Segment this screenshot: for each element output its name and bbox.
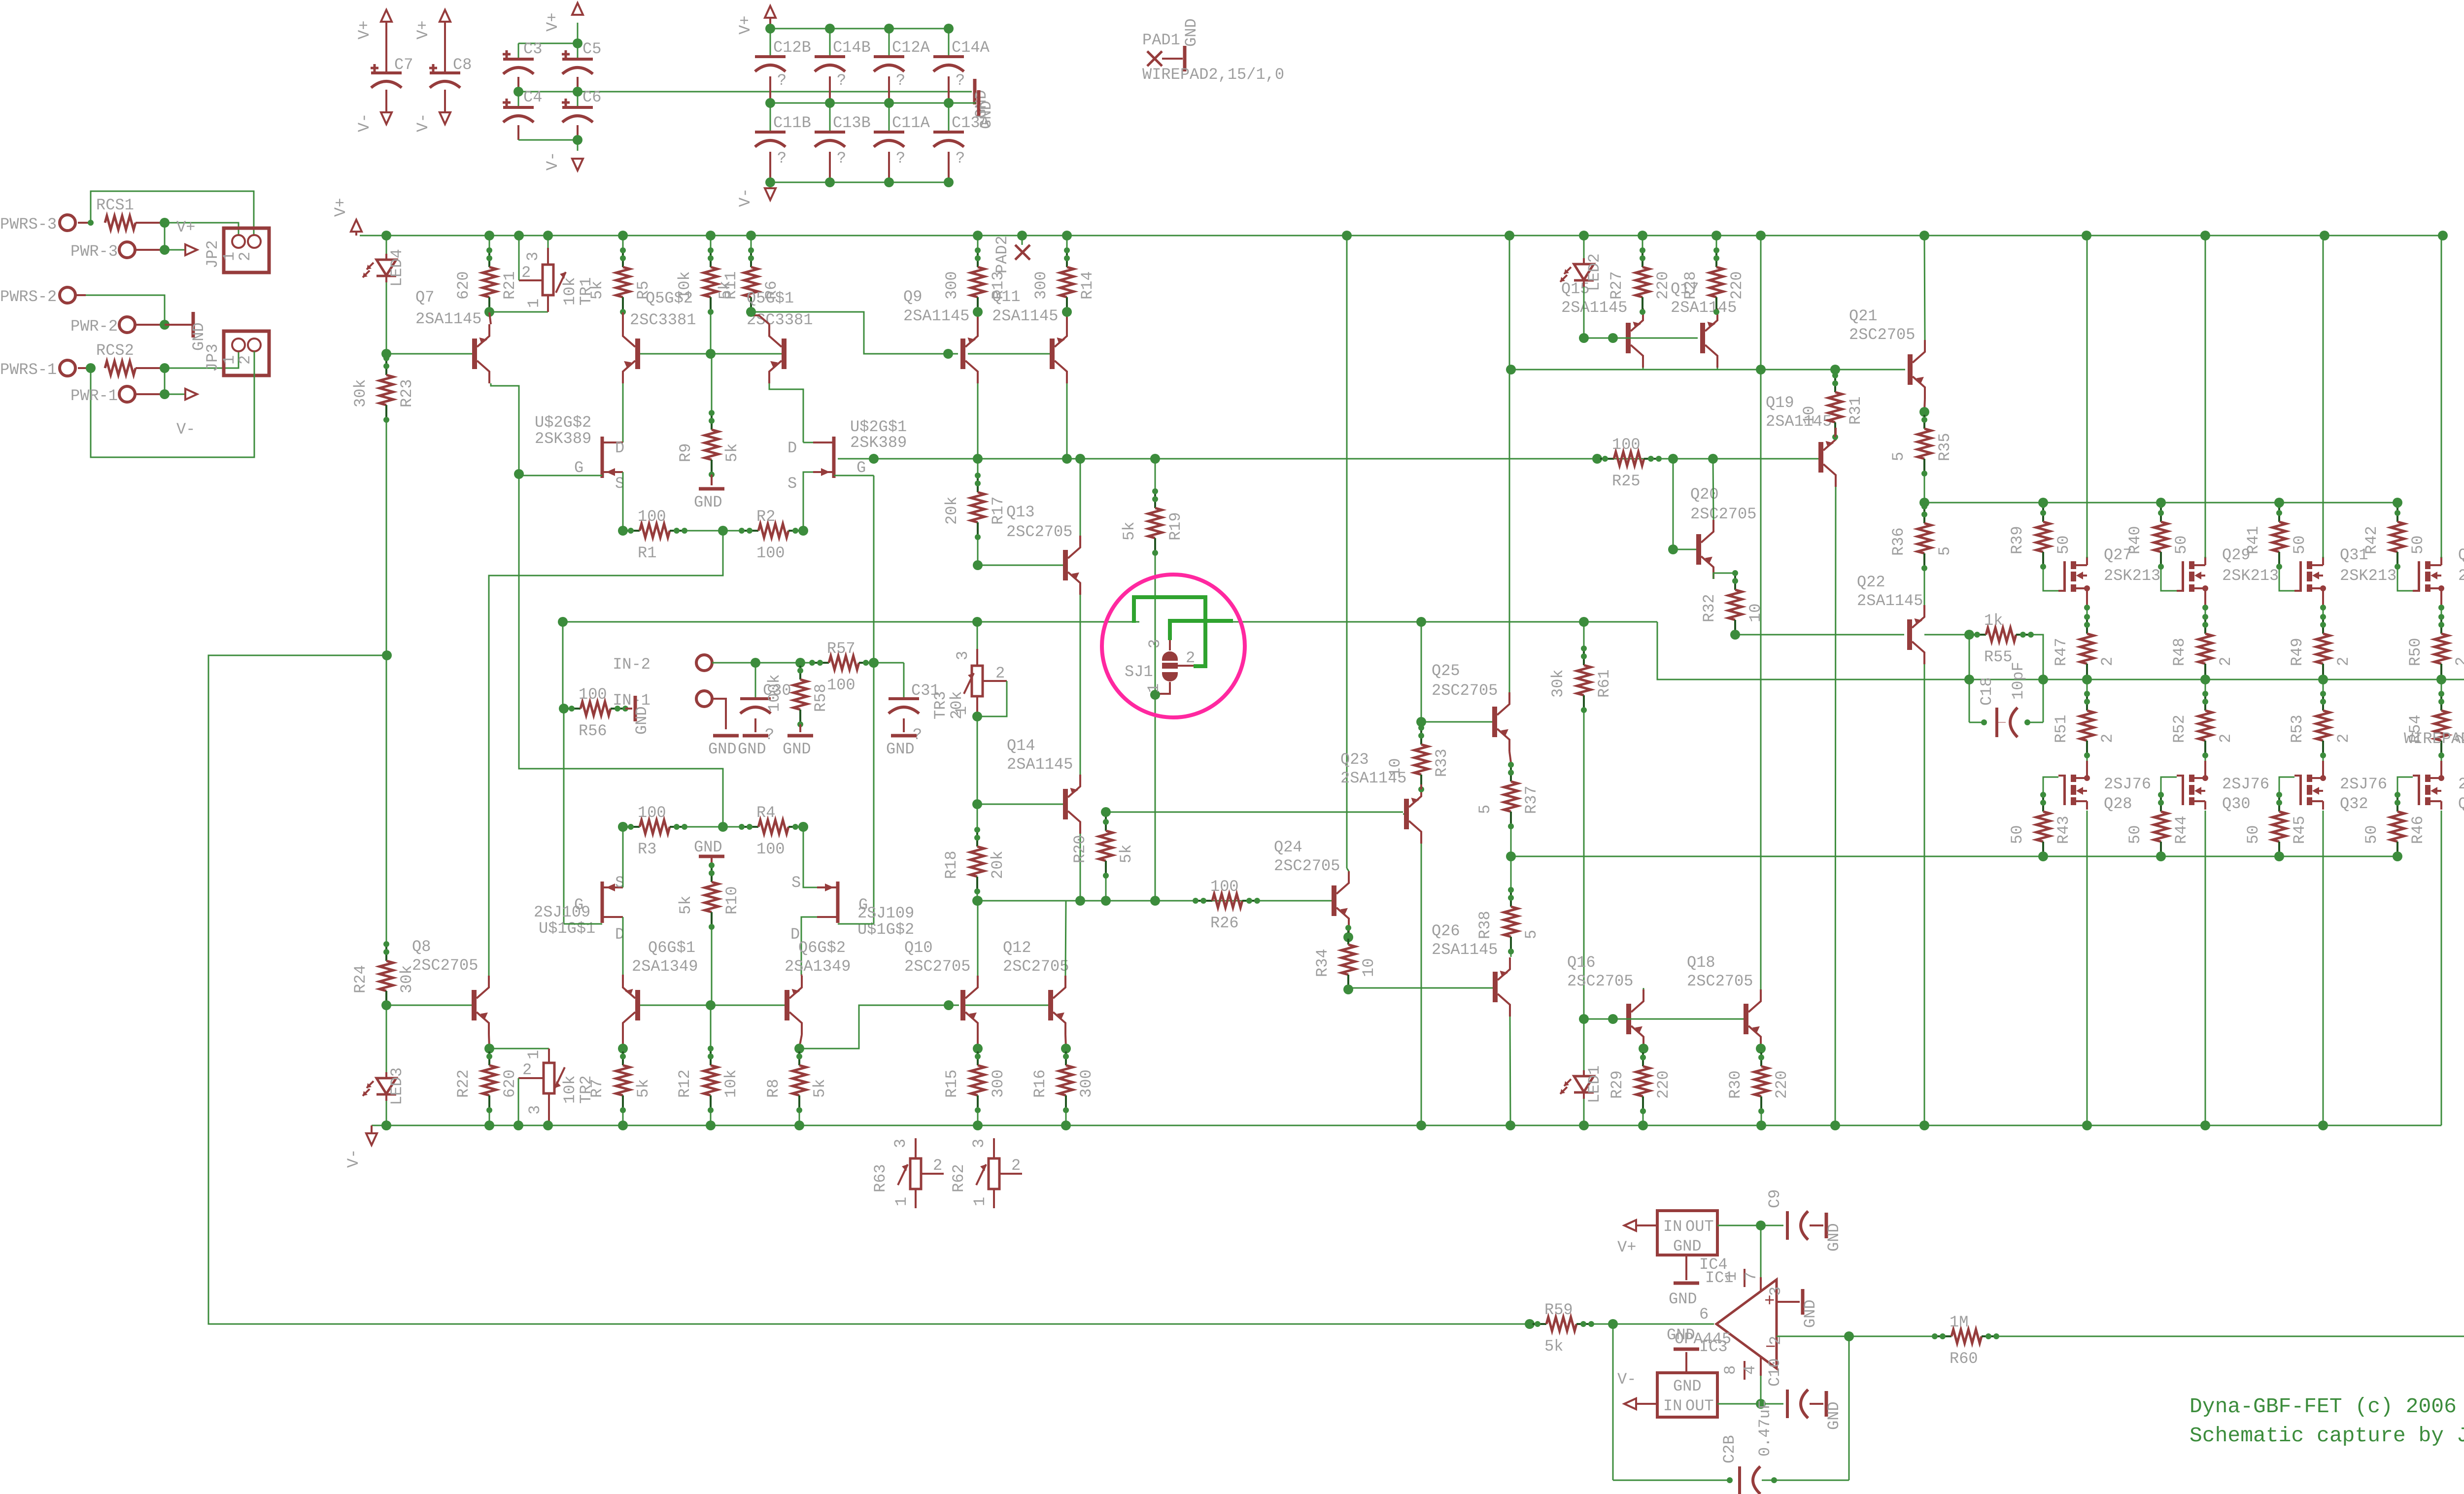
bottom wire C4 C6	[518, 139, 578, 141]
svg-text:R57: R57	[827, 640, 856, 658]
svg-text:2SJ76: 2SJ76	[2104, 775, 2151, 793]
svg-text:R55: R55	[1984, 648, 2013, 666]
wire Q28 drain to V- rail	[2087, 811, 2088, 1125]
resistor RCS2	[78, 367, 91, 369]
wire PWR-3 to V+ arrow	[135, 249, 165, 251]
capacitor C18	[1969, 722, 1984, 723]
svg-text:GND: GND	[1801, 1299, 1819, 1328]
transistor Q5G$1	[782, 339, 787, 369]
capacitor C11A	[889, 103, 890, 132]
transistor Q9	[960, 339, 965, 369]
resistor R7	[618, 1044, 628, 1053]
wire Q12 collector up	[1065, 901, 1066, 976]
wire Q26 base line	[1348, 987, 1493, 989]
V- symbol below cap bank	[770, 182, 771, 185]
op-amp IC1 OPA445 triangle	[1716, 1280, 1777, 1368]
wire Q34 gate to R46	[2397, 777, 2413, 795]
capacitor C12B	[770, 29, 771, 57]
ground under C31	[891, 734, 917, 738]
resistor R24	[385, 944, 387, 961]
svg-text:R2: R2	[756, 508, 775, 526]
svg-text:2: 2	[2453, 657, 2464, 666]
MOSFET Q28 2SJ76	[2058, 761, 2090, 810]
capacitor C30	[755, 663, 756, 699]
transistor Q12	[1048, 990, 1053, 1020]
svg-text:GND: GND	[694, 838, 722, 856]
svg-text:C9: C9	[1766, 1189, 1784, 1208]
wire V+ to Q24 collector column	[1346, 236, 1348, 868]
wire Q6G$1 collector to R7	[622, 1035, 624, 1048]
svg-text:R63: R63	[871, 1164, 890, 1192]
wire Q29 source to R48	[2205, 606, 2206, 617]
op-amp pin 3 to ground	[1777, 1301, 1800, 1303]
svg-text:LED3: LED3	[388, 1067, 406, 1105]
svg-text:R44: R44	[2172, 815, 2190, 844]
wire Q7 collector loop to R3 R4 junction	[491, 383, 723, 827]
wire R59 to op-amp	[1591, 1324, 1714, 1325]
svg-text:2: 2	[2334, 734, 2353, 743]
V+ symbol above C7	[381, 10, 392, 22]
svg-text:R51: R51	[2052, 714, 2070, 743]
svg-text:2: 2	[933, 1156, 942, 1175]
wire R52 to Q30 source	[2205, 755, 2206, 763]
svg-text:2SK389: 2SK389	[850, 434, 907, 452]
svg-text:2SC2705: 2SC2705	[1567, 972, 1633, 990]
hand-drawn jumper annotation A	[1134, 597, 1205, 666]
svg-text:R39: R39	[2008, 526, 2026, 554]
svg-text:2SK213: 2SK213	[2104, 567, 2160, 585]
JFET U$2G$2 2SK389	[601, 437, 604, 478]
wire Q18 collector up to column	[1760, 236, 1762, 989]
resistor R12	[710, 1049, 712, 1065]
V- arrow symbol near PWR-1	[185, 389, 197, 400]
wire Q16 Q18 base line	[1584, 1019, 1744, 1020]
mid line wire (R25/Q19 base line)	[838, 458, 1818, 460]
svg-text:2: 2	[1767, 1336, 1785, 1345]
pad IN-2	[696, 655, 712, 671]
svg-text:2: 2	[521, 264, 531, 282]
svg-text:10k: 10k	[561, 1075, 579, 1104]
svg-text:3: 3	[524, 252, 542, 261]
svg-text:R62: R62	[950, 1164, 968, 1192]
svg-text:50: 50	[2126, 825, 2144, 844]
wire Q30 gate to R44	[2161, 777, 2177, 795]
wire Q6G base line	[640, 1005, 785, 1006]
svg-text:2SJ76: 2SJ76	[2458, 775, 2464, 793]
V- symbol below C8	[440, 112, 450, 124]
svg-text:R43: R43	[2054, 815, 2073, 844]
wire R50 to output bus	[2441, 679, 2442, 679]
resistor R29	[1642, 1050, 1644, 1066]
wire Q25 emitter to R37	[1509, 751, 1511, 763]
svg-text:6: 6	[1699, 1305, 1709, 1324]
svg-text:V-: V-	[736, 188, 754, 207]
transistor Q26	[1493, 972, 1498, 1002]
resistor R48	[2204, 617, 2206, 634]
svg-text:50: 50	[2409, 536, 2427, 554]
cap bank bottom wire	[770, 182, 949, 183]
ground symbol near PWR-2	[192, 312, 195, 338]
jumper JP2	[224, 228, 269, 272]
wire Q20 emitter to R32	[1713, 573, 1735, 579]
wire R59 node down to C2B	[1612, 1324, 1614, 1480]
svg-text:300: 300	[1077, 1069, 1095, 1098]
svg-text:R38: R38	[1476, 911, 1494, 939]
svg-text:R22: R22	[454, 1069, 473, 1098]
svg-text:2SA1145: 2SA1145	[415, 310, 481, 328]
resistor R50	[2440, 617, 2442, 634]
svg-text:C10: C10	[1766, 1358, 1784, 1387]
wire R45 to lower gate bus	[2274, 851, 2284, 861]
svg-text:R41: R41	[2244, 526, 2262, 554]
MOSFET Q29 2SK213	[2182, 561, 2184, 592]
wire Q15 emitter to R27	[1642, 308, 1644, 312]
resistor R43	[2042, 795, 2044, 812]
capacitor C13A	[948, 103, 950, 132]
junction Q8 base	[381, 1000, 391, 1010]
wire RCS2 to JP3 pin1	[165, 351, 239, 368]
svg-text:3: 3	[1146, 639, 1164, 648]
svg-text:V-: V-	[414, 113, 432, 132]
svg-text:SJ1: SJ1	[1125, 663, 1153, 681]
wire Q8 collector loop to R1 R2 junction	[489, 531, 723, 976]
svg-text:U$1G$1: U$1G$1	[539, 919, 595, 938]
svg-text:Q23: Q23	[1340, 750, 1369, 769]
svg-text:Q24: Q24	[1274, 838, 1302, 856]
V+ arrow symbol near PWR-3	[185, 244, 197, 255]
wire Q16 collector to Q26 base line	[1643, 988, 1644, 990]
wire Q28 gate to R43	[2043, 777, 2058, 795]
wire Q24 collector up	[1347, 868, 1349, 871]
trimmer TR2	[548, 1049, 550, 1063]
op-amp pin 8 tick	[1744, 1361, 1745, 1380]
svg-text:2SC2705: 2SC2705	[1432, 681, 1498, 700]
resistor R8	[794, 1044, 804, 1053]
wire Q32 drain to V- rail	[2323, 811, 2324, 1125]
wire V+ to Q27 drain	[2087, 236, 2088, 558]
wire Q6G$2 collector to R8	[799, 1035, 802, 1048]
transistor Q19	[1818, 442, 1823, 473]
svg-text:G: G	[574, 896, 583, 914]
svg-text:Q10: Q10	[904, 939, 933, 957]
wire R8 top to Q10 base	[799, 1005, 959, 1049]
svg-text:2SA1349: 2SA1349	[632, 957, 698, 976]
transistor Q22	[1907, 619, 1912, 650]
svg-text:2SA1145: 2SA1145	[1671, 299, 1737, 317]
wire Q7 base	[386, 353, 472, 355]
wire Q24 emitter to R34	[1348, 930, 1349, 936]
svg-text:R49: R49	[2288, 638, 2306, 666]
svg-text:V+: V+	[414, 21, 432, 39]
resistor R36	[1923, 507, 1925, 523]
wire U$1G$2 gate up to R57	[838, 923, 874, 925]
wire Q17 emitter to R28	[1716, 308, 1717, 312]
wire C2B up to op-amp pin2	[1848, 1336, 1850, 1480]
svg-text:3: 3	[970, 1139, 988, 1148]
svg-text:50: 50	[2008, 825, 2026, 844]
svg-text:R1: R1	[638, 544, 656, 562]
svg-text:R29: R29	[1608, 1070, 1626, 1099]
svg-text:GND: GND	[1825, 1223, 1843, 1252]
svg-text:10k: 10k	[722, 1069, 740, 1098]
svg-text:R61: R61	[1595, 669, 1613, 698]
wire Q5G$1 collector to R6	[751, 312, 769, 324]
resistor R3	[623, 826, 640, 828]
resistor R61	[1579, 617, 1589, 627]
resistor R14	[1066, 250, 1068, 267]
svg-text:220: 220	[1728, 271, 1746, 300]
svg-text:GND: GND	[708, 740, 737, 758]
svg-text:1M: 1M	[1950, 1313, 1968, 1331]
transistor Q15	[1626, 323, 1631, 353]
svg-text:8: 8	[1721, 1365, 1740, 1375]
wire Q10 collector up	[977, 901, 979, 976]
capacitor C9	[1761, 1225, 1783, 1226]
ground right of R56	[634, 696, 637, 721]
op-amp pin 7 wire to IC4 out	[1760, 1225, 1762, 1277]
svg-text:GND: GND	[694, 493, 722, 511]
svg-text:V+: V+	[176, 218, 195, 237]
svg-text:V-: V-	[344, 1149, 363, 1168]
wire R46 to lower gate bus	[2393, 851, 2402, 861]
resistor R54	[2441, 679, 2442, 694]
svg-text:100: 100	[638, 508, 666, 526]
wire V+ to Q25 collector column	[1509, 236, 1510, 691]
svg-text:300: 300	[1032, 271, 1050, 300]
wire R54 to Q34 source	[2441, 755, 2442, 763]
svg-text:R24: R24	[351, 965, 370, 993]
svg-text:R52: R52	[2170, 714, 2189, 743]
junction R21 bottom	[484, 307, 494, 317]
svg-text:2: 2	[995, 664, 1005, 682]
svg-text:5: 5	[1522, 930, 1540, 939]
wire R19 to SJ1 junction	[1155, 553, 1156, 901]
wire R44 to lower gate bus	[2156, 851, 2166, 861]
op-amp pin 1 tick	[1744, 1269, 1745, 1287]
svg-text:620: 620	[454, 271, 473, 300]
wire U$2G$2 gate	[519, 475, 602, 476]
svg-text:V+: V+	[1617, 1238, 1636, 1256]
junction dots on V- rail	[381, 1120, 391, 1130]
svg-text:IN: IN	[1663, 1218, 1682, 1236]
svg-text:2SA1349: 2SA1349	[785, 957, 851, 976]
svg-text:R17: R17	[989, 496, 1007, 525]
resistor R26	[1196, 900, 1212, 902]
wire Q30 drain to V- rail	[2205, 811, 2206, 1125]
svg-text:D: D	[615, 439, 624, 457]
resistor R32	[1734, 573, 1736, 590]
wire R32 to Q22 base	[1730, 630, 1740, 640]
resistor R28	[1715, 250, 1717, 267]
svg-text:R56: R56	[579, 722, 607, 740]
wire Q27 source to R47	[2087, 606, 2088, 617]
wire pad PAD2	[1022, 236, 1023, 245]
junction R57 right	[869, 658, 879, 668]
svg-text:?: ?	[956, 149, 965, 168]
wire Q12 base	[965, 1005, 1048, 1006]
V+ symbol above C5	[572, 3, 583, 15]
svg-text:R35: R35	[1936, 433, 1954, 461]
svg-text:30k: 30k	[1549, 669, 1567, 698]
svg-text:C2B: C2B	[1720, 1435, 1739, 1463]
wire R49 to output bus	[2323, 679, 2324, 679]
V+ symbol above C8	[440, 10, 450, 22]
wire input bus to R33	[1416, 617, 1426, 627]
svg-text:LED2: LED2	[1585, 253, 1604, 291]
servo feedback loop wire	[208, 655, 1530, 1324]
junction dots on V+ rail	[381, 231, 391, 240]
transistor Q10	[960, 990, 965, 1020]
svg-text:2SA1145: 2SA1145	[1561, 299, 1627, 317]
wire Q25 base	[1421, 721, 1492, 723]
wire Q21 collector to V+	[1924, 236, 1925, 340]
svg-text:100: 100	[756, 840, 785, 858]
svg-text:10pF: 10pF	[2009, 662, 2027, 700]
transistor Q6G$2	[785, 990, 789, 1020]
svg-text:5k: 5k	[1120, 522, 1138, 541]
svg-text:Q9: Q9	[903, 288, 922, 306]
svg-text:50: 50	[2244, 825, 2262, 844]
capacitor C3	[503, 58, 534, 61]
svg-text:G: G	[856, 459, 866, 477]
solder jumper SJ1	[1162, 651, 1178, 661]
V- power rail	[372, 1125, 2441, 1126]
resistor R34	[1343, 932, 1353, 942]
wire Q11 base	[968, 353, 1050, 355]
svg-text:300: 300	[943, 271, 961, 300]
wire R60 to output riser	[1996, 1336, 2464, 1337]
svg-text:LED4: LED4	[388, 249, 406, 287]
svg-text:U$2G$2: U$2G$2	[535, 413, 591, 432]
V+ arrow at IC4 input	[1635, 1224, 1657, 1226]
wire Q32 gate to R45	[2279, 777, 2294, 795]
op-amp pin 2 wire to R60	[1777, 1336, 1937, 1337]
V- symbol below bank	[577, 140, 579, 151]
svg-text:Q19: Q19	[1766, 394, 1794, 412]
svg-text:10: 10	[1360, 958, 1378, 977]
transistor Q8	[472, 990, 477, 1020]
wire Q11 collector down	[1066, 383, 1068, 459]
svg-text:300: 300	[989, 1069, 1007, 1098]
capacitor C12A	[889, 29, 890, 57]
svg-text:5: 5	[1476, 805, 1494, 814]
MOSFET Q31 2SK213	[2299, 561, 2302, 592]
wire Q12 emitter to R16	[1065, 1035, 1066, 1048]
svg-text:Q8: Q8	[412, 938, 431, 956]
resistor R35	[1919, 407, 1929, 417]
svg-text:R16: R16	[1031, 1069, 1049, 1098]
svg-text:100: 100	[1612, 436, 1641, 454]
svg-text:5k: 5k	[811, 1079, 829, 1098]
svg-text:R37: R37	[1522, 785, 1540, 814]
wire U$2G$1 drain up	[803, 442, 813, 443]
svg-text:2: 2	[236, 355, 254, 365]
svg-text:?: ?	[777, 149, 787, 168]
svg-text:WIREPAD3,81/1,4: WIREPAD3,81/1,4	[2404, 730, 2464, 748]
resistor R49	[2322, 617, 2324, 634]
wire V+ to Q29 drain	[2205, 236, 2206, 558]
svg-text:2SA1145: 2SA1145	[1432, 941, 1498, 959]
resistor R6	[750, 250, 752, 267]
capacitor C11B	[770, 103, 771, 132]
svg-text:10k: 10k	[561, 277, 579, 306]
svg-text:2: 2	[522, 1061, 532, 1079]
wire Q20 collector up	[1713, 459, 1713, 520]
wire R55 C18 box right	[2031, 635, 2043, 722]
svg-text:2: 2	[2098, 734, 2117, 743]
svg-text:R18: R18	[942, 850, 960, 879]
svg-text:PWRS-1: PWRS-1	[0, 361, 57, 379]
svg-text:50: 50	[2054, 536, 2073, 554]
svg-text:0.47uF: 0.47uF	[1756, 1400, 1774, 1457]
svg-text:R25: R25	[1612, 472, 1641, 490]
svg-text:R60: R60	[1950, 1350, 1978, 1368]
svg-text:2SK213: 2SK213	[2222, 567, 2279, 585]
svg-text:5k: 5k	[716, 281, 734, 300]
svg-text:?: ?	[896, 71, 905, 90]
wire Q23 collector to V- rail	[1421, 844, 1422, 1125]
svg-text:LED1: LED1	[1585, 1065, 1604, 1103]
resistor R9	[711, 354, 713, 413]
resistor R19	[1155, 459, 1156, 491]
wire mid line down to Q20 base	[1673, 459, 1674, 549]
wire C3 C5 top	[518, 43, 578, 44]
svg-text:PWRS-3: PWRS-3	[0, 215, 57, 234]
mid wire C4 C6 tops	[518, 91, 972, 93]
svg-text:V+: V+	[544, 13, 562, 32]
regulator IC3	[1657, 1373, 1717, 1417]
svg-text:Q6G$2: Q6G$2	[798, 939, 846, 957]
wire Q21 emitter to R35	[1924, 399, 1925, 411]
wire U$1G$1 source to R3	[622, 827, 624, 887]
svg-text:2: 2	[2098, 657, 2117, 666]
wire R3 to mid junction	[684, 826, 742, 828]
svg-text:R33: R33	[1433, 748, 1451, 777]
svg-text:30k: 30k	[351, 379, 370, 407]
svg-text:C3: C3	[523, 40, 542, 58]
resistor R45	[2278, 795, 2280, 812]
svg-text:GND: GND	[1673, 1237, 1702, 1256]
svg-text:R46: R46	[2409, 815, 2427, 844]
svg-text:Q28: Q28	[2104, 795, 2132, 813]
resistor R51	[2087, 679, 2088, 694]
resistor R33	[1420, 728, 1422, 745]
svg-text:Q6G$1: Q6G$1	[648, 939, 695, 957]
svg-text:Q12: Q12	[1003, 939, 1031, 957]
wire Q5G base line	[640, 353, 782, 355]
svg-text:R53: R53	[2288, 714, 2306, 743]
svg-text:R20: R20	[1071, 835, 1089, 863]
cap bank mid wire	[770, 102, 976, 104]
svg-text:OPA445: OPA445	[1675, 1330, 1731, 1348]
junction gate bus at R42	[2393, 498, 2402, 508]
LED LED2	[1583, 236, 1585, 264]
svg-text:50: 50	[2172, 536, 2190, 554]
LED LED4	[386, 236, 387, 260]
wire Q5G$2 emitter to U$2G$2 drain	[622, 383, 624, 442]
svg-text:2SC3381: 2SC3381	[747, 311, 813, 329]
svg-text:C5: C5	[582, 40, 601, 58]
svg-text:PAD1: PAD1	[1142, 31, 1180, 49]
wire PWR-2 to GND	[135, 324, 165, 326]
svg-text:JP3: JP3	[204, 343, 222, 372]
resistor R11	[710, 250, 712, 267]
capacitor C2B	[1613, 1480, 1730, 1481]
MOSFET Q27 2SK213	[2063, 561, 2066, 592]
junction gate bus at R39	[2038, 498, 2048, 508]
svg-text:GND: GND	[783, 740, 811, 758]
svg-text:20k: 20k	[948, 691, 966, 719]
